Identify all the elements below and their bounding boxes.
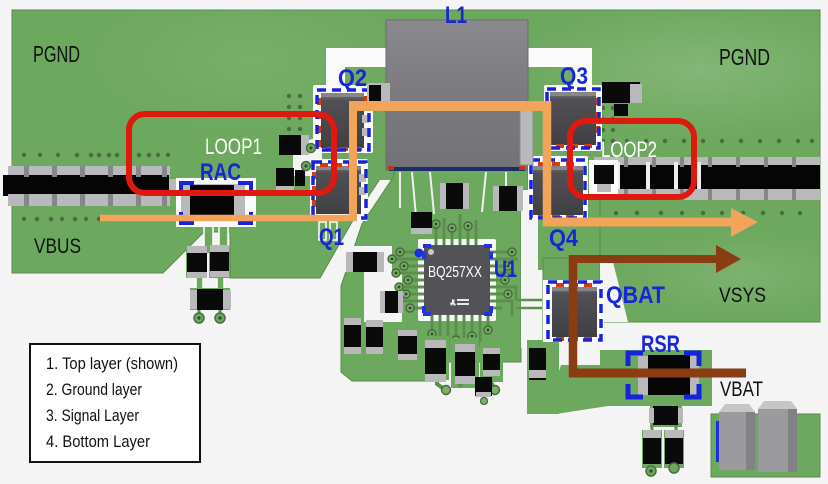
transistor Q2 body [321,93,369,148]
svg-text:RSR: RSR [641,331,680,358]
via row right PGND lower [614,211,802,215]
left connector gray pad row bottom [8,194,170,206]
svg-text:Q4: Q4 [549,225,579,252]
svg-text:LOOP2: LOOP2 [601,137,657,162]
left connector black bar [3,175,169,196]
white halo Q1 [310,159,368,221]
svg-text:PGND: PGND [33,41,80,67]
white trace band left of L1 to Q2 [326,48,390,67]
green plates and legs of bottom cluster [421,336,503,405]
capacitor right of Q2 top [367,83,390,103]
svg-text:Q2: Q2 [338,65,367,92]
IC U1 BQ257XX [422,244,493,316]
orange path: right horizontal [543,218,734,227]
white pocket left of Q1/Q2 [293,136,322,176]
white channel between QBAT and VSYS band [600,262,628,322]
svg-text:Q3: Q3 [560,63,588,90]
board pour: left PGND block [12,170,386,278]
blue courtyard brackets RSR [628,353,699,397]
capacitor in white pocket [380,291,403,313]
svg-text:RAC: RAC [200,159,241,186]
svg-text:Q1: Q1 [319,224,344,251]
white pocket + capacitor right of Q4 [589,160,618,198]
sheen highlights [510,0,828,140]
red pad dashes QBAT [556,283,592,341]
svg-text:PGND: PGND [719,44,770,70]
red pad dashes Q4 [538,162,574,219]
white halo Q4 [528,156,588,220]
svg-text:4. Bottom Layer: 4. Bottom Layer [46,432,150,451]
red pad dashes Q1 [312,163,356,207]
board pour: RSR patch [600,350,712,406]
svg-text:LOOP1: LOOP1 [205,134,262,159]
red LOOP2 outline [570,121,694,197]
svg-text:U1: U1 [494,256,517,283]
U1 fan-out traces right [490,252,518,316]
blue courtyard brackets RAC [181,183,251,223]
brown battery path: top horizontal [569,255,722,263]
U1 white halo [418,239,496,321]
gray rod left of Q4 [520,105,533,165]
orange arrowhead [731,208,758,237]
board pour: Q3/Q4 column + QBAT peninsula [538,160,600,270]
resistor RAC [181,184,245,218]
components below RSR [642,405,684,476]
svg-text:1. Top layer (shown): 1. Top layer (shown) [46,354,178,373]
transistor Q4 body [533,166,583,215]
svg-text:L1: L1 [445,2,467,29]
resistor RSR [638,355,699,395]
transistor QBAT body [552,287,597,337]
scattered capacitors above U1 [411,183,523,234]
blue courtyard box QBAT [548,282,601,340]
left edge connector: gray pad row top [8,166,170,177]
capacitor right of Q3 [602,82,642,116]
blue courtyard box Q3 [547,89,599,148]
U1 fan-out traces bottom [432,315,488,356]
orange path: right vertical [543,102,552,226]
vias around U1 [388,220,516,344]
brown path: vertical [569,255,578,377]
white slot west of QBAT [521,190,538,348]
caps cluster lower-left of U1 [344,318,500,384]
svg-text:BQ257XX: BQ257XX [428,264,482,281]
trace stubs below Q1 [319,222,337,240]
inductor L1 [386,20,528,171]
board ground pour: top mass [12,10,820,170]
bottom-right electrolytic capacitors [716,401,797,472]
orange path: top horizontal [349,101,551,111]
via grid near Q3 [601,106,615,143]
via row left PGND upper [22,153,170,157]
transistor Q1 body [316,166,366,214]
brown path: bottom horizontal [569,369,746,378]
capacitor left of U1 on white [346,252,384,272]
transistor Q3 body [544,92,596,145]
white trace band right of L1 to Q3 [524,48,592,67]
legend box [30,344,200,462]
svg-text:VBUS: VBUS [34,235,81,258]
traces from U1 to QBAT across slot [516,300,542,308]
U1 fan-out traces top [436,214,476,245]
U1 fan-out traces left [392,252,424,308]
via row left PGND lower [22,217,112,221]
RAC white halo [176,178,256,227]
blue courtyard box Q1 [313,162,366,218]
capacitor pair below RAC [186,245,230,278]
svg-text:VBAT: VBAT [720,378,763,401]
left connector pad gaps [24,166,167,206]
red pad dashes Q2 [317,96,368,151]
via grid near Q2 [287,94,302,131]
capacitor group inside LOOP1 right [276,135,309,192]
board pour: wedge to RSR patch [545,365,608,414]
board pour: column to RSR [527,340,559,414]
board pour: right mass with VSYS band [600,160,820,322]
brown arrowhead [716,245,741,273]
QBAT white halo [543,280,604,342]
connector end tab [169,179,177,196]
svg-text:3. Signal Layer: 3. Signal Layer [46,406,139,425]
svg-text:VSYS: VSYS [719,284,766,307]
board pour: central U1 plateau [341,170,528,381]
right edge connector: gray pad row top [594,157,820,167]
right connector white gaps in black [611,162,701,192]
red pad dashes Q3 [556,98,600,148]
white halo Q3 [544,85,602,151]
white pocket on plateau left (cap area) [340,246,402,322]
right connector black bar [594,165,820,191]
capacitor below (horizontal) with round pads [190,288,231,323]
capacitor in channel left of QBAT [527,344,549,390]
orange input current path: left horizontal [100,215,356,222]
via row right PGND upper [587,139,814,143]
white traces from L1 bottom to U1 area [400,172,506,228]
svg-text:QBAT: QBAT [606,282,665,309]
vias on white pocket left of Q1 [302,144,316,171]
svg-text:2. Ground layer: 2. Ground layer [46,380,142,399]
board pour: bottom-right block [711,414,820,477]
right connector gray pad row bottom [594,189,820,200]
orange path: left vertical [349,102,357,221]
red LOOP1 outline [129,114,334,193]
white halo Q2 [313,85,373,153]
blue courtyard box Q4 [531,160,585,218]
blue courtyard box Q2 [317,90,369,150]
RAC trace strips down [196,224,228,294]
